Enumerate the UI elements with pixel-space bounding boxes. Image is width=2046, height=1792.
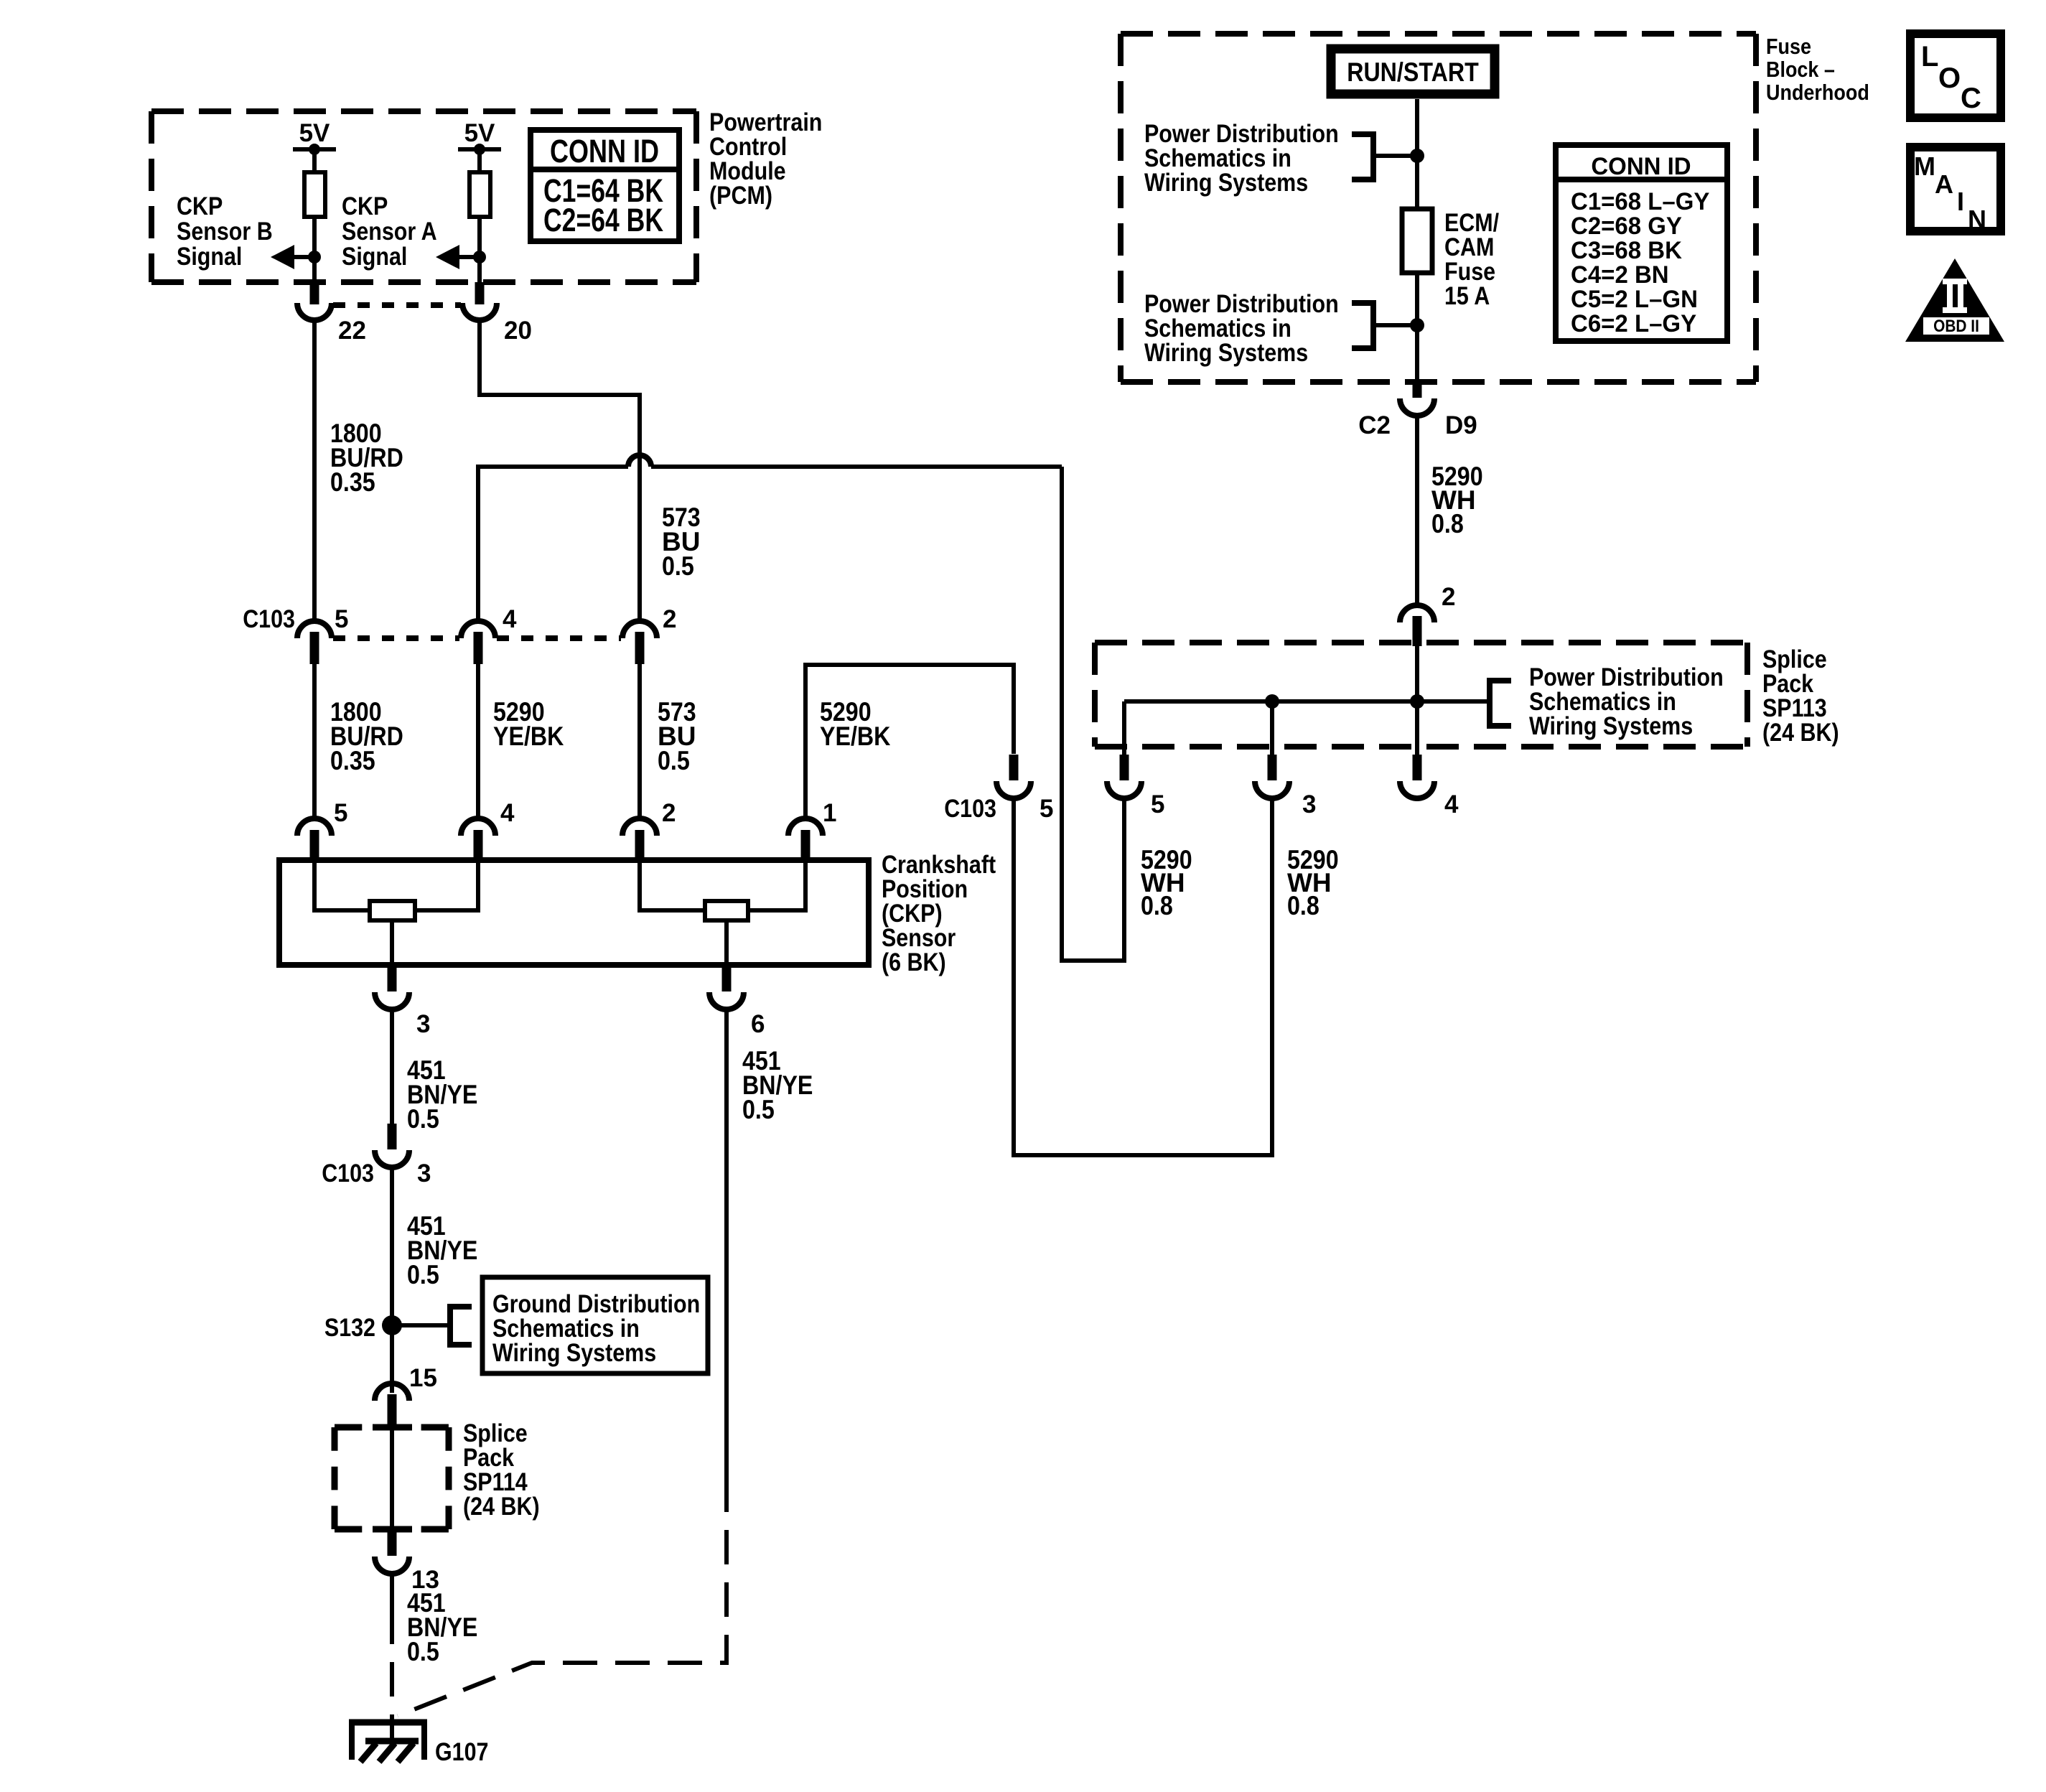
svg-text:Wiring Systems: Wiring Systems xyxy=(1144,339,1308,367)
svg-text:5: 5 xyxy=(334,799,347,827)
ground G107 xyxy=(349,1719,489,1766)
svg-text:15 A: 15 A xyxy=(1444,282,1490,310)
connector SP113 pin 3 xyxy=(1255,755,1316,818)
node 5V supply B xyxy=(293,119,336,172)
svg-text:22: 22 xyxy=(338,317,366,345)
bracket ground distribution reference xyxy=(450,1307,472,1345)
wire element B to sensor pin 3 xyxy=(390,920,394,965)
svg-text:2: 2 xyxy=(662,799,676,827)
svg-text:N: N xyxy=(1968,205,1986,234)
wire element A to sensor pin 6 xyxy=(724,920,729,965)
svg-text:G107: G107 xyxy=(435,1738,489,1766)
svg-text:CONN ID: CONN ID xyxy=(550,133,659,169)
svg-text:4: 4 xyxy=(1444,790,1459,818)
label wire 451 BN/YE 0.5 (pin 3) xyxy=(407,1055,477,1134)
wire S132 to reference bracket xyxy=(392,1323,450,1327)
connector CKP sensor pin 2 xyxy=(622,799,676,860)
label wire 573 BU 0.5 upper xyxy=(662,503,701,581)
label Splice Pack SP113 (24 BK) xyxy=(1762,645,1839,747)
svg-text:YE/BK: YE/BK xyxy=(820,722,891,751)
connector CKP sensor pin 4 xyxy=(461,799,515,860)
connector C103 pin 5 (right) xyxy=(944,755,1053,823)
svg-text:L: L xyxy=(1921,41,1938,73)
svg-text:0.5: 0.5 xyxy=(407,1104,439,1134)
svg-text:YE/BK: YE/BK xyxy=(493,722,564,751)
resistor pull-up CKP Sensor A xyxy=(470,172,490,217)
connector C103 dashed body xyxy=(333,635,621,641)
svg-text:6: 6 xyxy=(751,1010,765,1038)
wire SP113 feed through xyxy=(1415,646,1419,755)
svg-text:0.8: 0.8 xyxy=(1431,509,1464,538)
svg-text:0.35: 0.35 xyxy=(330,746,375,775)
fuse ECM/CAM 15A xyxy=(1402,209,1499,310)
svg-text:C4=2 BN: C4=2 BN xyxy=(1571,261,1669,289)
label CKP Sensor A Signal xyxy=(342,192,437,271)
wire SP113 pin 5 loop to 5290 feed riser xyxy=(1062,467,1124,961)
label CKP Sensor B Signal xyxy=(177,192,273,271)
svg-text:15: 15 xyxy=(409,1364,437,1392)
wire 5290 YE/BK sensor pin 1 riser to C103-5 right xyxy=(805,665,1014,819)
svg-text:20: 20 xyxy=(504,317,532,345)
svg-text:I: I xyxy=(1957,187,1964,216)
label wire 451 BN/YE 0.5 (to ground) xyxy=(407,1588,477,1666)
node power distribution tap 1 xyxy=(1373,149,1424,163)
svg-text:2: 2 xyxy=(663,605,676,633)
node SP113 bus junction pin 4 xyxy=(1410,694,1424,709)
svg-text:Block –: Block – xyxy=(1766,57,1835,82)
svg-text:5: 5 xyxy=(1151,790,1164,818)
label wire 5290 WH 0.8 (SP113 pin 5) xyxy=(1141,845,1192,920)
wire sensor element B leads xyxy=(314,860,478,910)
svg-text:0.35: 0.35 xyxy=(330,467,375,497)
connector SP113 pin 2 xyxy=(1400,583,1455,646)
svg-text:Sensor B: Sensor B xyxy=(177,218,273,246)
svg-text:5: 5 xyxy=(335,605,348,633)
svg-text:Signal: Signal xyxy=(177,243,242,271)
connector CKP sensor pin 3 xyxy=(375,965,430,1038)
svg-text:0.8: 0.8 xyxy=(1141,891,1173,920)
svg-text:Fuse: Fuse xyxy=(1766,34,1811,59)
splice S132 xyxy=(324,1314,402,1342)
connector C103 pin 2 xyxy=(622,605,676,664)
svg-text:(6 BK): (6 BK) xyxy=(882,948,946,976)
svg-text:C1=68 L–GY: C1=68 L–GY xyxy=(1571,188,1710,215)
svg-text:RUN/START: RUN/START xyxy=(1347,57,1479,87)
bracket power distribution reference 2 xyxy=(1352,303,1373,348)
wire 451 BN/YE C103-3 to S132 xyxy=(390,1167,394,1393)
wire through SP114 xyxy=(390,1427,394,1529)
wire 5290 feed horizontal from C103 pin 4 to right riser xyxy=(478,465,1062,622)
svg-text:Wiring Systems: Wiring Systems xyxy=(492,1339,656,1367)
connector CKP sensor pin 5 xyxy=(297,799,347,860)
wire 5290 YE/BK from C103-4 to sensor pin 4 xyxy=(476,664,480,819)
svg-text:3: 3 xyxy=(417,1159,431,1187)
svg-text:C3=68 BK: C3=68 BK xyxy=(1571,237,1682,264)
bracket power distribution reference 1 xyxy=(1352,134,1373,179)
svg-text:CONN ID: CONN ID xyxy=(1591,153,1691,180)
svg-text:3: 3 xyxy=(416,1010,430,1038)
connector PCM pin 20 (C2) xyxy=(462,282,532,345)
wire 451 BN/YE from pin 6 xyxy=(724,1009,729,1493)
connector C103 pin 5 xyxy=(297,605,348,664)
svg-text:1: 1 xyxy=(823,799,836,827)
table CONN ID (fuse block) xyxy=(1556,145,1727,341)
svg-text:4: 4 xyxy=(500,799,515,827)
connector C2 pin D9 xyxy=(1358,382,1477,439)
svg-text:CKP: CKP xyxy=(177,192,223,220)
icon OBD II triangle xyxy=(1905,258,2004,342)
svg-text:Wiring Systems: Wiring Systems xyxy=(1144,169,1308,197)
wire fuse to fuse block exit xyxy=(1415,273,1419,382)
switch RUN/START voltage source xyxy=(1331,49,1495,94)
wire RUN/START to fuse xyxy=(1415,99,1419,209)
wire 573 BU from C103-2 to sensor pin 2 xyxy=(637,664,642,819)
label wire 451 BN/YE 0.5 (pin 6) xyxy=(742,1046,813,1124)
label C103 (in-line connector row) xyxy=(243,605,295,633)
svg-text:Signal: Signal xyxy=(342,243,407,271)
wire 5290 WH fuse output xyxy=(1415,416,1419,607)
label Crankshaft Position (CKP) Sensor (6 BK) xyxy=(882,851,996,976)
icon LOC box xyxy=(1910,34,2001,118)
connector SP113 pin 5 xyxy=(1107,755,1164,818)
wire 1800 BU/RD from pin 22 to C103 pin 5 xyxy=(312,320,317,622)
label wire 1800 BU/RD 0.35 upper xyxy=(330,419,403,497)
connector SP114 pin 13 xyxy=(375,1529,439,1594)
arrow CKP Sensor A Signal xyxy=(436,245,480,269)
label wire 1800 BU/RD 0.35 lower xyxy=(330,697,403,775)
svg-text:2: 2 xyxy=(1442,583,1455,611)
label Power Distribution Schematics in Wiring Systems SP113 xyxy=(1529,663,1724,740)
svg-text:5V: 5V xyxy=(299,119,330,147)
svg-text:C2: C2 xyxy=(1358,411,1391,439)
callout box Ground Distribution Schematics in Wiring Systems xyxy=(482,1277,708,1373)
svg-text:C103: C103 xyxy=(322,1159,374,1187)
svg-text:0.5: 0.5 xyxy=(662,551,694,581)
wire bus drop to SP113 pin 3 xyxy=(1270,701,1274,755)
resistor pull-up CKP Sensor B xyxy=(304,172,325,217)
connector C103 pin 4 xyxy=(461,605,517,664)
label wire 5290 YE/BK xyxy=(493,697,564,751)
svg-text:C: C xyxy=(1961,83,1981,114)
svg-text:C2=64 BK: C2=64 BK xyxy=(543,202,663,238)
label Power Distribution Schematics in Wiring Systems 1 xyxy=(1144,120,1339,197)
svg-text:5V: 5V xyxy=(464,119,495,147)
icon MAIN box xyxy=(1910,147,2001,234)
table CONN ID (PCM) xyxy=(531,130,679,241)
svg-text:D9: D9 xyxy=(1445,411,1477,439)
svg-text:Sensor A: Sensor A xyxy=(342,218,437,246)
wire sensor element A leads xyxy=(640,860,805,910)
wire 451 BN/YE SP114 to G107 xyxy=(390,1574,394,1719)
wire SP113 pin 3 loop to C103 pin 5 right xyxy=(1014,798,1272,1155)
wire 451 BN/YE from pin 3 xyxy=(390,1009,394,1124)
label wire 451 BN/YE 0.5 (below C103) xyxy=(407,1211,477,1289)
fuse block underhood dashed box xyxy=(1121,34,1756,382)
label wire 5290 WH 0.8 (fuse) xyxy=(1431,462,1483,538)
label Splice Pack SP114 (24 BK) xyxy=(463,1419,540,1521)
svg-text:C103: C103 xyxy=(944,795,996,823)
svg-text:OBD II: OBD II xyxy=(1933,317,1979,336)
svg-text:S132: S132 xyxy=(324,1314,375,1342)
arrow CKP Sensor B Signal xyxy=(271,245,314,269)
svg-text:(24 BK): (24 BK) xyxy=(463,1493,540,1521)
svg-text:0.5: 0.5 xyxy=(742,1095,775,1124)
svg-text:C103: C103 xyxy=(243,605,295,633)
wire 573 BU from pin 20 down and right xyxy=(480,320,640,622)
svg-text:5: 5 xyxy=(1040,795,1053,823)
splice pack SP113 dashed box xyxy=(1095,643,1747,747)
label Power Distribution Schematics in Wiring Systems 2 xyxy=(1144,290,1339,367)
wire crossover hop at 891,650 xyxy=(628,455,651,467)
splice pack SP114 dashed box xyxy=(335,1427,449,1529)
svg-text:C2=68 GY: C2=68 GY xyxy=(1571,213,1682,240)
connector CKP sensor pin 1 xyxy=(788,799,836,860)
CKP sensor box xyxy=(279,860,869,965)
PCM module box (Powertrain Control Module) xyxy=(151,111,696,282)
label wire 573 BU 0.5 lower xyxy=(658,697,696,775)
connector SP114 pin 15 xyxy=(375,1364,437,1427)
connector C103 pin 3 (ground path) xyxy=(322,1124,431,1187)
svg-text:O: O xyxy=(1938,62,1961,94)
connector dashed link pins 22-20 xyxy=(333,302,461,308)
wire dashed pin 6 to ground run xyxy=(398,1493,727,1716)
wire resistor A to PCM pin 20 xyxy=(477,217,482,282)
sensor element B (pickup coil) xyxy=(370,901,415,920)
label wire 5290 WH 0.8 (SP113 pin 3) xyxy=(1287,845,1339,920)
svg-text:3: 3 xyxy=(1302,790,1316,818)
svg-text:(PCM): (PCM) xyxy=(709,182,772,210)
svg-text:CKP: CKP xyxy=(342,192,388,220)
svg-text:(24 BK): (24 BK) xyxy=(1762,719,1839,747)
svg-text:C6=2 L–GY: C6=2 L–GY xyxy=(1571,310,1696,337)
svg-text:Wiring Systems: Wiring Systems xyxy=(1529,712,1693,740)
node 5V supply A xyxy=(458,119,501,172)
wire bus drop to SP113 pin 5 xyxy=(1122,701,1126,755)
label Fuse Block - Underhood xyxy=(1766,34,1869,105)
svg-text:0.5: 0.5 xyxy=(407,1260,439,1289)
wire SP113 internal bus xyxy=(1124,699,1490,704)
svg-text:C5=2 L–GN: C5=2 L–GN xyxy=(1571,286,1698,313)
svg-text:M: M xyxy=(1914,151,1935,181)
svg-text:A: A xyxy=(1935,169,1953,199)
wire resistor B to PCM pin 22 xyxy=(312,217,317,282)
label Powertrain Control Module (PCM) xyxy=(709,108,822,210)
node SP113 bus junction pin 3 xyxy=(1265,694,1279,709)
bracket power distribution reference SP113 xyxy=(1490,681,1511,726)
svg-text:0.5: 0.5 xyxy=(658,746,690,775)
sensor element A (pickup coil) xyxy=(705,901,748,920)
node CKP Sensor B Signal junction xyxy=(308,251,321,263)
node power distribution tap 2 xyxy=(1373,318,1424,332)
wire 1800 BU/RD from C103-5 to sensor pin 5 xyxy=(312,664,317,819)
connector CKP sensor pin 6 xyxy=(709,965,765,1038)
svg-text:4: 4 xyxy=(503,605,517,633)
node CKP Sensor A Signal junction xyxy=(473,251,486,263)
svg-text:0.8: 0.8 xyxy=(1287,891,1319,920)
svg-text:Underhood: Underhood xyxy=(1766,80,1869,105)
connector SP113 pin 4 xyxy=(1400,755,1459,818)
svg-text:0.5: 0.5 xyxy=(407,1637,439,1666)
label wire 5290 YE/BK (pin 1) xyxy=(820,697,891,751)
connector PCM pin 22 (C2) xyxy=(297,282,366,345)
